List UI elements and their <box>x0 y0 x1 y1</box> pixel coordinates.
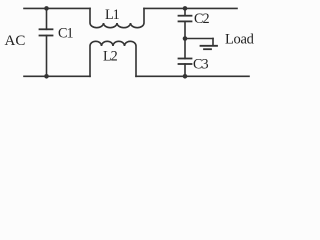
wire top-right segment <box>144 7 237 9</box>
inductor L2 <box>90 41 136 76</box>
capacitor C3 <box>179 58 192 60</box>
node C3 bottom junction <box>183 74 188 79</box>
wire C2 to C3 <box>184 21 186 58</box>
svg-text:C3: C3 <box>193 57 208 73</box>
node ground junction <box>183 36 188 41</box>
svg-text:C2: C2 <box>194 11 209 27</box>
inductor L1 <box>90 8 144 27</box>
wire bottom-left segment <box>24 75 90 77</box>
node C2 top junction <box>183 6 188 11</box>
svg-text:L2: L2 <box>103 49 118 65</box>
svg-text:Load: Load <box>225 31 255 47</box>
wire bottom-right segment <box>136 75 249 77</box>
capacitor C2 <box>184 8 186 15</box>
svg-text:L1: L1 <box>105 7 120 23</box>
capacitor C1 <box>46 8 48 29</box>
wire top-left segment <box>24 7 90 9</box>
node C1 top junction <box>44 6 49 11</box>
node C1 bottom junction <box>44 74 49 79</box>
svg-text:AC: AC <box>5 33 26 49</box>
ground <box>201 45 218 47</box>
wire to ground <box>185 38 213 40</box>
svg-text:C1: C1 <box>58 26 73 42</box>
